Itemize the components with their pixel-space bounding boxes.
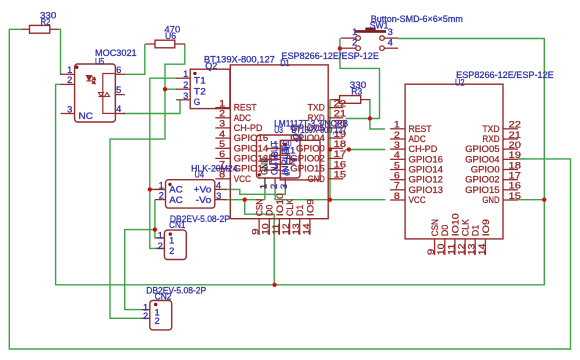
svg-text:5: 5 (394, 160, 400, 170)
svg-text:D1: D1 (280, 58, 290, 68)
svg-text:D0: D0 (440, 225, 450, 237)
svg-text:NC: NC (79, 111, 94, 121)
svg-text:2: 2 (67, 75, 72, 85)
wire U5 pin4 to Q2.G (122, 100, 180, 114)
wire U3 OUTPUT to U2.VCC and D1.GND (275, 189, 385, 199)
svg-text:18: 18 (334, 139, 347, 149)
junction at GPIO0 x330 crossing (328, 147, 332, 151)
svg-text:12: 12 (457, 243, 467, 255)
svg-text:D1: D1 (471, 225, 481, 237)
wire U4.AC2 to CN1 pin1 and CN2 pin1 (125, 200, 165, 310)
junction at R3-RXD-REST node (368, 116, 372, 120)
svg-text:6: 6 (219, 149, 225, 159)
svg-text:2: 2 (183, 80, 188, 90)
svg-text:IO9: IO9 (305, 199, 315, 216)
wire R3 left down to OUTPUT rail crossing TXD, GPIO0, GND pins (329, 100, 331, 200)
svg-text:CH-PD: CH-PD (234, 123, 263, 133)
resistor R1 value 330 (262, 138, 298, 164)
svg-text:T2: T2 (194, 87, 206, 97)
junction at U2.GND rail (542, 198, 546, 202)
svg-text:AC: AC (169, 185, 183, 195)
svg-text:Q1: Q1 (293, 132, 303, 142)
junction at bottom rail (272, 283, 276, 287)
svg-text:18: 18 (509, 160, 522, 170)
svg-text:GPIO0: GPIO0 (471, 165, 500, 175)
svg-text:CN2: CN2 (155, 291, 172, 301)
svg-text:1: 1 (158, 231, 163, 241)
svg-text:1: 1 (394, 120, 400, 130)
svg-text:3: 3 (273, 161, 278, 171)
junction at GPIO0 wire stub end (347, 147, 351, 151)
svg-text:3: 3 (279, 184, 289, 189)
svg-text:ESP8266-12E/ESP-12E: ESP8266-12E/ESP-12E (456, 70, 554, 80)
svg-text:ESP8266-12E/ESP-12E: ESP8266-12E/ESP-12E (281, 51, 379, 61)
svg-text:20: 20 (509, 140, 522, 150)
triac Q1 BT139X-800,127 (267, 125, 347, 180)
resistor R2 value 330 (22, 11, 59, 34)
optocoupler U5 MOC3021 (61, 48, 137, 122)
svg-text:GPIO13: GPIO13 (409, 185, 444, 195)
svg-text:GPIO15: GPIO15 (465, 185, 500, 195)
svg-text:TXD: TXD (482, 124, 499, 134)
svg-text:22: 22 (509, 120, 522, 130)
svg-text:GPIO02: GPIO02 (465, 175, 500, 185)
svg-text:CSN: CSN (255, 199, 265, 216)
ESP module D1 ESP8266-12E/ESP-12E (215, 51, 379, 235)
svg-text:13: 13 (467, 243, 477, 255)
svg-text:T1: T1 (194, 76, 206, 86)
svg-text:TXD: TXD (308, 103, 325, 113)
svg-text:G: G (284, 167, 291, 177)
svg-text:1: 1 (169, 236, 174, 246)
svg-text:R3: R3 (351, 87, 362, 97)
svg-text:D0: D0 (265, 204, 275, 216)
svg-text:GPIO05: GPIO05 (465, 144, 500, 154)
junction at -Vo GND node (243, 198, 247, 202)
svg-text:19: 19 (509, 150, 522, 160)
junction at U4.AC1 node (148, 187, 152, 191)
svg-text:CH-PD: CH-PD (409, 144, 438, 154)
svg-text:-Vo: -Vo (196, 195, 212, 205)
svg-text:5: 5 (219, 139, 225, 149)
svg-text:3: 3 (216, 191, 221, 201)
svg-text:2: 2 (273, 150, 278, 160)
svg-text:9: 9 (251, 228, 261, 235)
svg-text:GPIO14: GPIO14 (409, 165, 444, 175)
svg-text:2: 2 (143, 311, 148, 321)
svg-text:ADC: ADC (234, 113, 252, 123)
svg-text:D1: D1 (295, 204, 305, 216)
svg-text:9: 9 (426, 248, 436, 255)
svg-text:VCC: VCC (234, 174, 252, 184)
junction at U3.OUTPUT-D1.GND node (328, 198, 332, 202)
svg-text:3: 3 (183, 91, 188, 101)
svg-text:4: 4 (394, 150, 400, 160)
svg-text:5: 5 (116, 85, 121, 95)
wire Q2.T1 to U4.AC1 and CN1 pin2 (150, 78, 178, 248)
wire U6 right to Q2.T2 and CN2 pin2 (110, 44, 185, 318)
svg-text:CSN: CSN (430, 219, 440, 236)
svg-text:U2: U2 (455, 77, 465, 87)
wire R2 to U5 pin1 (59, 29, 62, 74)
svg-text:SW1: SW1 (370, 20, 389, 30)
svg-text:1: 1 (259, 184, 269, 189)
svg-text:3: 3 (219, 119, 225, 129)
resistor R3 value 330 (330, 80, 370, 103)
svg-text:GPIO04: GPIO04 (465, 154, 500, 164)
svg-text:GND: GND (308, 174, 325, 184)
svg-text:R2: R2 (41, 17, 51, 27)
svg-text:11: 11 (271, 223, 281, 235)
wire U2.GND to SW1 rail (518, 199, 544, 201)
svg-text:22: 22 (334, 98, 347, 108)
svg-text:10: 10 (261, 223, 271, 235)
svg-text:1: 1 (352, 27, 357, 37)
svg-text:U4: U4 (195, 169, 205, 179)
svg-text:GPIO16: GPIO16 (409, 154, 444, 164)
svg-text:2: 2 (159, 191, 164, 201)
svg-text:CN1: CN1 (169, 220, 185, 230)
connector CN1 DB2EV-5.08-2P (156, 214, 230, 259)
svg-text:14: 14 (477, 243, 487, 255)
power module U4 HLK-20M24 (152, 163, 237, 208)
svg-text:G: G (194, 97, 201, 107)
svg-text:VCC: VCC (409, 195, 427, 205)
svg-text:2: 2 (158, 241, 163, 251)
svg-text:2: 2 (219, 109, 225, 119)
svg-text:2: 2 (155, 316, 160, 326)
wire U3 GND pin drop (264, 189, 266, 199)
svg-text:17: 17 (334, 149, 347, 159)
svg-text:1: 1 (219, 98, 225, 108)
svg-text:21: 21 (509, 130, 522, 140)
svg-text:1: 1 (67, 65, 72, 75)
svg-text:Q2: Q2 (205, 61, 217, 71)
triac Q2 BT139X-800,127 (176, 54, 275, 108)
svg-text:U6: U6 (165, 31, 176, 41)
svg-text:15: 15 (509, 191, 522, 201)
svg-text:GPIO12: GPIO12 (409, 175, 444, 185)
svg-text:7: 7 (394, 181, 400, 191)
svg-text:10: 10 (436, 243, 446, 255)
svg-text:16: 16 (334, 159, 347, 169)
svg-text:T2: T2 (284, 157, 296, 167)
svg-text:2: 2 (269, 184, 279, 189)
svg-text:17: 17 (509, 171, 522, 181)
svg-text:AC: AC (169, 195, 183, 205)
svg-text:6: 6 (116, 65, 121, 75)
svg-text:4: 4 (116, 104, 121, 114)
svg-text:16: 16 (509, 181, 522, 191)
svg-text:2: 2 (169, 246, 174, 256)
regulator U3 LM1117T-3.3/NOPB (257, 119, 349, 190)
svg-text:12: 12 (281, 223, 291, 235)
wire U4 +Vo to U3 INPUT (225, 187, 286, 195)
svg-text:2: 2 (394, 130, 400, 140)
svg-text:11: 11 (446, 243, 456, 255)
svg-text:6: 6 (394, 171, 400, 181)
svg-text:4: 4 (388, 38, 393, 48)
ESP module U2 ESP8266-12E/ESP-12E (390, 70, 554, 255)
svg-text:REST: REST (234, 103, 258, 113)
svg-text:ADC: ADC (409, 134, 427, 144)
svg-text:REST: REST (409, 124, 433, 134)
svg-text:13: 13 (291, 223, 301, 235)
wire U5 pin2 bottom rail to SW1 pin3 (56, 39, 545, 285)
switch SW1 Button-SMD-6x6x5mm (341, 14, 463, 51)
connector CN2 DB2EV-5.08-2P (142, 285, 207, 330)
svg-text:3: 3 (394, 140, 400, 150)
svg-text:U3: U3 (274, 125, 283, 135)
svg-text:21: 21 (334, 109, 347, 119)
svg-text:IO9: IO9 (481, 219, 491, 236)
svg-text:IO10: IO10 (450, 213, 460, 236)
svg-text:2: 2 (352, 38, 357, 48)
svg-text:8: 8 (394, 191, 400, 201)
svg-text:CLK: CLK (461, 219, 471, 236)
svg-text:1: 1 (273, 140, 278, 150)
svg-text:15: 15 (334, 170, 347, 180)
svg-text:GPIO14: GPIO14 (234, 143, 269, 153)
wire D1.GPIO0 to U2.CH-PD (345, 149, 385, 151)
svg-text:3: 3 (67, 104, 72, 114)
svg-text:14: 14 (301, 223, 311, 235)
svg-text:CLK: CLK (285, 199, 295, 216)
svg-text:3: 3 (388, 27, 393, 37)
wire U5 pin6 to U6 left (125, 44, 145, 74)
resistor U6 value 470 (146, 25, 186, 48)
svg-text:1: 1 (183, 69, 188, 79)
svg-text:T1: T1 (284, 146, 296, 156)
svg-text:4: 4 (216, 180, 221, 190)
svg-text:GND: GND (482, 195, 499, 205)
svg-text:4: 4 (219, 129, 225, 139)
junction at U4.AC2-CN node (153, 227, 157, 231)
svg-text:1: 1 (159, 181, 164, 191)
wire SW1 pins1-2 to R3, D1.RXD and U2.REST (340, 38, 385, 129)
svg-text:RXD: RXD (482, 134, 499, 144)
wire U2.GPIO04 stub join (518, 158, 526, 160)
svg-text:+Vo: +Vo (194, 185, 212, 195)
junction at SW1 pins 1-2 (338, 46, 342, 50)
junction at U6-Q2.T2 node (163, 87, 167, 91)
svg-text:IO10: IO10 (275, 193, 285, 216)
wire U4 -Vo to U3 GND and bottom rail (225, 200, 275, 285)
svg-text:U5: U5 (95, 56, 104, 66)
